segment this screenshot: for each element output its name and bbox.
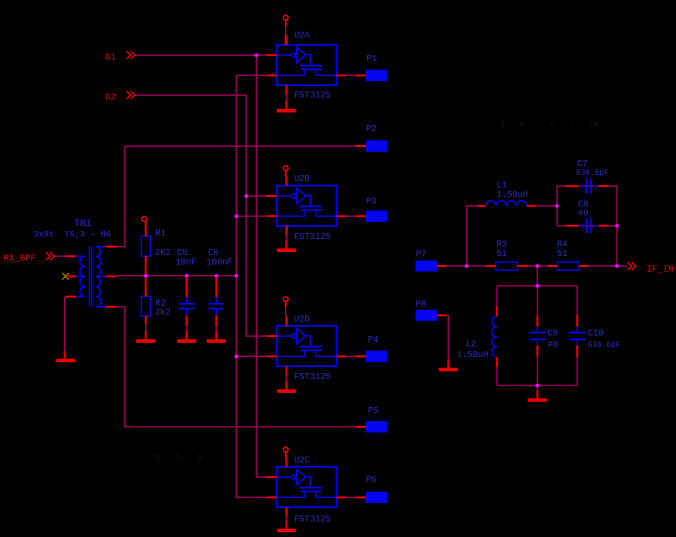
wire U2A gnd (285, 95, 287, 101)
wire TR1 top tap to P2 (117, 146, 358, 247)
wire C5 gnd (186, 326, 188, 331)
svg-text:P8: P8 (416, 300, 427, 310)
wire U2A vcc (285, 26, 287, 35)
bus switch U2A (267, 35, 347, 94)
ground under U2B (285, 240, 287, 248)
primary winding (76, 256, 85, 296)
bus switch U2C (267, 457, 347, 516)
wire P8 to gnd (446, 315, 448, 359)
vcc symbol above U2D (283, 297, 288, 302)
wire U2A output to P1 (346, 74, 357, 76)
junction dot G1/U2A (255, 53, 259, 57)
wire tank gnd (536, 386, 538, 391)
capacitor C5 (176, 248, 197, 326)
svg-text:L2: L2 (466, 340, 477, 350)
port P5 (356, 421, 387, 432)
wire U2B output to P3 (346, 215, 357, 217)
bus switch U2B (267, 176, 347, 235)
resistor R4 (548, 239, 589, 270)
port P8 (416, 300, 447, 321)
svg-text:#0: #0 (548, 340, 559, 350)
wire C10 legs (576, 286, 578, 386)
svg-text:2k2: 2k2 (155, 308, 171, 318)
wire L2 legs (496, 286, 498, 386)
core lines (89, 246, 92, 307)
wire net G1 (135, 55, 267, 477)
junction dot tank bottom (536, 384, 540, 388)
svg-text:L1: L1 (497, 180, 508, 190)
junction dot bus/U2B (234, 214, 238, 218)
svg-text:C7: C7 (577, 159, 588, 169)
secondary winding (96, 247, 106, 307)
output label IF_IN (628, 262, 636, 270)
junction node L1/C7C8 (555, 204, 559, 208)
svg-text:U2B: U2B (294, 174, 310, 184)
junction dot bus/center tap (234, 274, 238, 278)
svg-text:FST3125: FST3125 (294, 515, 331, 525)
ground under tank (536, 390, 538, 398)
wire C7/C8 loop (557, 186, 617, 266)
wire RF bus from TR1 center tap (117, 75, 267, 497)
inductor L2 (457, 306, 497, 367)
secondary center tap lead (96, 275, 106, 277)
port P3 (356, 211, 387, 222)
svg-text:C9: C9 (548, 329, 559, 339)
svg-text:C10: C10 (588, 329, 604, 339)
svg-text:FST3125: FST3125 (294, 372, 331, 382)
resistor R3 (486, 239, 527, 270)
pin stubs TR1 (65, 247, 117, 307)
svg-text:636.6pF: 636.6pF (576, 170, 609, 178)
svg-text:RX_BPF: RX_BPF (4, 254, 36, 264)
svg-text:C6: C6 (208, 248, 219, 258)
svg-text:FST3125: FST3125 (294, 232, 331, 242)
wire L1 to C7/C8 (536, 205, 557, 207)
wire U2C output to P6 (346, 496, 357, 498)
junction dot C6 (214, 274, 218, 278)
junction dot bus/U2D (234, 355, 238, 359)
ground under R2 (145, 331, 147, 339)
svg-text:3x9t T6,3 - H6: 3x9t T6,3 - H6 (34, 230, 111, 240)
vcc symbol above U2C (283, 447, 288, 452)
wire U2C gnd (285, 517, 287, 521)
port P7 (416, 250, 447, 272)
svg-text:51: 51 (497, 249, 508, 259)
svg-text:R3: R3 (497, 239, 508, 249)
svg-text:P4: P4 (368, 335, 379, 345)
wire U2D gnd (285, 376, 287, 381)
svg-text:P5: P5 (368, 406, 379, 416)
svg-text:P1: P1 (367, 54, 378, 64)
svg-text:TR1: TR1 (74, 218, 92, 229)
svg-text:U2A: U2A (294, 31, 311, 41)
svg-text:P2: P2 (366, 124, 377, 134)
junction dot main/tank (535, 264, 539, 268)
port P2 (356, 140, 387, 151)
ground under U2A (285, 101, 287, 109)
svg-text:P6: P6 (366, 475, 377, 485)
svg-text:10nF: 10nF (176, 258, 197, 268)
svg-text:C5: C5 (177, 248, 188, 258)
capacitor C6 (207, 248, 233, 326)
capacitor C7 (566, 159, 609, 194)
junction dot C5 (185, 274, 189, 278)
bus switch U2D (267, 316, 347, 375)
svg-text:R4: R4 (557, 239, 568, 249)
port P1 (356, 70, 387, 81)
svg-text:P3: P3 (366, 197, 377, 207)
wire C9 legs (536, 286, 538, 386)
wire net G2 (135, 95, 267, 336)
junction dot main/C7C8 (615, 264, 619, 268)
junction dot tank top (536, 284, 540, 288)
svg-text:P7: P7 (416, 250, 427, 260)
ground under P8 (447, 359, 449, 368)
svg-text:51: 51 (557, 249, 568, 259)
junction dot R1/R2 (144, 274, 148, 278)
junction dot main/L1 (465, 264, 469, 268)
resistor R1 (141, 221, 171, 275)
wire L1 branch left (467, 206, 478, 266)
port P4 (356, 351, 387, 362)
svg-text:#0: #0 (578, 208, 589, 218)
capacitor C9 (529, 315, 558, 357)
wire R3/R4 node down to tank (536, 266, 538, 286)
svg-text:IF_IN: IF_IN (647, 265, 674, 275)
wire U2D vcc (285, 307, 287, 316)
svg-text:G1: G1 (105, 52, 116, 62)
wire U2B gnd (285, 236, 287, 241)
vcc symbol above U2A (283, 15, 288, 20)
port P6 (356, 492, 387, 503)
primary center tap lead (76, 275, 85, 277)
wire C6 gnd (215, 326, 217, 331)
wire main IF line P7 to IF_IN (446, 265, 627, 267)
svg-text:FST3125: FST3125 (294, 91, 331, 101)
svg-text:100nF: 100nF (207, 258, 233, 268)
vcc symbol above U2B (283, 166, 288, 171)
junction dot C8/right leg (615, 224, 619, 228)
svg-text:636.6pF: 636.6pF (588, 342, 621, 350)
wire RX_BPF to TR1 (55, 255, 65, 257)
ground under U2D (285, 381, 287, 389)
resistor R2 (141, 276, 171, 325)
capacitor C8 (566, 199, 608, 233)
inductor L1 (477, 180, 536, 206)
svg-text:1.59uH: 1.59uH (497, 190, 529, 200)
svg-text:2K2: 2K2 (155, 248, 171, 258)
wire TR1 primary to ground (64, 297, 66, 351)
junction dot G2/U2B (244, 194, 248, 198)
transformer TR1 (34, 218, 117, 307)
unconnected tap cross (62, 273, 69, 280)
svg-text:G2: G2 (105, 92, 116, 102)
svg-text:U2D: U2D (294, 314, 310, 324)
vcc symbol above R1 (142, 217, 147, 222)
wire U2D output to P4 (346, 355, 357, 357)
ground for TR1 primary (64, 351, 66, 359)
ground under C5 (186, 331, 188, 339)
svg-text:1.59uH: 1.59uH (457, 350, 489, 360)
wire TR1 bottom tap to P5 (117, 307, 358, 427)
ground under U2C (285, 520, 287, 528)
capacitor C10 (569, 315, 621, 357)
ground under C6 (215, 331, 217, 339)
svg-text:U2C: U2C (294, 455, 310, 465)
wire tank rails (497, 286, 577, 386)
svg-text:R1: R1 (155, 228, 166, 238)
wire R2 gnd (145, 325, 147, 331)
